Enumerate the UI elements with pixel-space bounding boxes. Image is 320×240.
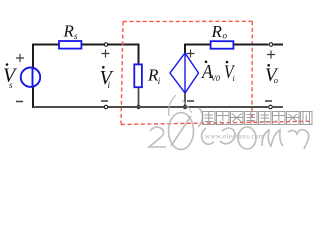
dashed amplifier model boundary	[121, 21, 310, 124]
label Ro	[211, 22, 228, 41]
junction diamond-bottom	[183, 105, 187, 109]
svg-text:R: R	[211, 22, 223, 41]
svg-text:o: o	[223, 31, 228, 41]
watermark	[149, 95, 312, 150]
plus sign at Vs	[16, 54, 24, 62]
node Vo- terminal	[269, 105, 273, 109]
wire Ri lower lead	[138, 88, 140, 107]
svg-text:i: i	[158, 76, 161, 86]
wire Ri upper lead	[138, 45, 140, 65]
dependent source AV0Vi (diamond)	[170, 53, 199, 93]
resistor Ro	[211, 41, 234, 49]
wire from input node to Ri	[108, 44, 140, 46]
minus sign at Vs	[16, 101, 23, 103]
wire from Rs to input node	[82, 44, 104, 46]
svg-text:V0: V0	[211, 74, 220, 83]
wire diamond bottom lead	[184, 93, 186, 107]
label Rs	[63, 22, 79, 41]
wire from diamond to Ro	[184, 44, 210, 46]
resistor Ri	[134, 64, 142, 87]
svg-text:i: i	[233, 74, 235, 83]
resistor Rs	[59, 41, 81, 49]
svg-text:www.elecfans.com: www.elecfans.com	[205, 133, 265, 141]
junction Ri-bottom	[136, 105, 140, 109]
label Vs	[3, 63, 18, 90]
node Vi+ terminal	[104, 43, 107, 46]
minus sign at Vi	[101, 100, 108, 102]
minus sign at dependent source	[187, 100, 194, 102]
wire from source to bottom rail	[32, 87, 34, 109]
label Ri	[147, 66, 161, 87]
node Vo+ terminal	[269, 43, 273, 47]
wire output stub top	[273, 44, 283, 46]
wire output stub bottom	[273, 106, 283, 108]
wire bottom rail	[33, 106, 268, 108]
minus sign at Vo	[265, 100, 272, 102]
plus sign at Vi	[102, 50, 110, 58]
plus sign at Vo	[267, 51, 275, 59]
wire diamond top lead	[184, 45, 186, 55]
svg-text:R: R	[63, 22, 75, 41]
svg-text:s: s	[74, 31, 78, 41]
label Vo	[265, 64, 279, 86]
label AV0Vi	[200, 61, 236, 84]
svg-text:s: s	[9, 80, 13, 90]
wire from Ro to output node	[234, 44, 269, 46]
label Vi	[100, 66, 115, 90]
node Vi- terminal	[104, 105, 107, 108]
svg-text:o: o	[274, 75, 278, 85]
wire top-left from source to Rs	[33, 45, 59, 69]
voltage source Vs	[21, 68, 40, 87]
plus sign at dependent source	[187, 50, 195, 58]
